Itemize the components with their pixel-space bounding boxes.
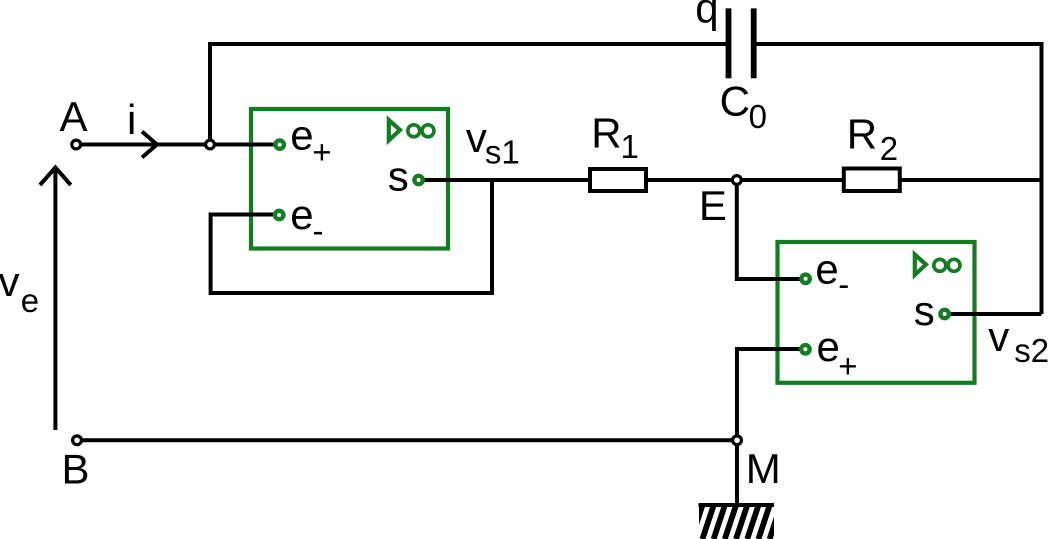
svg-text:e: e bbox=[21, 282, 39, 319]
resistor R2 body bbox=[844, 169, 900, 192]
svg-text:M: M bbox=[746, 445, 781, 492]
capacitor C0 right plate bbox=[751, 8, 757, 78]
terminal e+ of U1 bbox=[276, 140, 284, 148]
ground hatch bbox=[680, 506, 792, 539]
terminal e- of U1 bbox=[275, 211, 283, 219]
svg-text:A: A bbox=[60, 93, 88, 140]
gain triangle of U2 bbox=[915, 255, 926, 275]
svg-text:E: E bbox=[699, 182, 727, 229]
svg-text:s2: s2 bbox=[1014, 332, 1049, 369]
wire: input A to e+ of U1 bbox=[76, 143, 280, 147]
infinity symbol of U1 bbox=[408, 125, 420, 137]
svg-text:e: e bbox=[815, 245, 838, 292]
wire: E down to e- of U2 bbox=[737, 180, 806, 279]
op-amp U1 box bbox=[251, 109, 448, 249]
capacitor C0 left plate bbox=[726, 8, 732, 78]
infinity symbol of U2 bbox=[934, 259, 946, 271]
node junction at top of input bbox=[206, 140, 215, 149]
svg-text:v: v bbox=[988, 313, 1009, 360]
svg-text:q: q bbox=[695, 0, 718, 32]
node B terminal bbox=[73, 436, 82, 445]
node A terminal bbox=[72, 140, 81, 149]
op-amp U2 box bbox=[778, 242, 975, 383]
terminal e- of U2 bbox=[801, 275, 809, 283]
svg-text:C: C bbox=[720, 78, 750, 125]
svg-text:i: i bbox=[127, 96, 136, 143]
wire: feedback s1 to e- of U1 bbox=[211, 180, 492, 293]
svg-text:R: R bbox=[591, 110, 621, 157]
wire: junction up and top rail to capacitor left plate bbox=[210, 44, 727, 145]
node E bbox=[732, 176, 741, 185]
svg-text:e: e bbox=[817, 323, 840, 370]
terminal s of U2 bbox=[940, 310, 948, 318]
ground bar bbox=[699, 503, 775, 507]
wire: capacitor right plate along top rail and down right side to s2 level bbox=[755, 44, 1042, 314]
node M bbox=[733, 436, 742, 445]
svg-text:2: 2 bbox=[880, 130, 898, 167]
svg-text:s: s bbox=[914, 287, 935, 334]
svg-text:+: + bbox=[838, 347, 857, 384]
svg-text:-: - bbox=[313, 212, 324, 249]
svg-text:e: e bbox=[290, 191, 313, 238]
svg-text:1: 1 bbox=[621, 128, 639, 165]
svg-text:-: - bbox=[838, 266, 849, 303]
resistor R1 body bbox=[590, 169, 646, 191]
wire: M down to ground bbox=[735, 440, 739, 505]
gain triangle of U1 bbox=[389, 120, 400, 140]
wire: M up to e+ of U2 bbox=[737, 349, 806, 440]
wire: s1 output through R1, node E, R2 to right rail bbox=[419, 178, 1042, 182]
wire: B to M bbox=[77, 438, 737, 442]
svg-text:0: 0 bbox=[749, 98, 767, 135]
svg-text:R: R bbox=[847, 110, 877, 157]
svg-text:+: + bbox=[312, 133, 331, 170]
voltage arrow ve bbox=[53, 168, 57, 430]
svg-text:e: e bbox=[290, 111, 313, 158]
svg-text:v: v bbox=[466, 114, 487, 161]
svg-text:B: B bbox=[62, 446, 90, 493]
svg-text:v: v bbox=[0, 258, 20, 305]
terminal s of U1 bbox=[414, 176, 422, 184]
terminal e+ of U2 bbox=[801, 345, 809, 353]
svg-text:s: s bbox=[388, 153, 409, 200]
current arrow i chevron bbox=[142, 132, 157, 158]
wire: s2 output to right rail bbox=[945, 312, 1042, 316]
svg-text:s1: s1 bbox=[485, 134, 520, 171]
